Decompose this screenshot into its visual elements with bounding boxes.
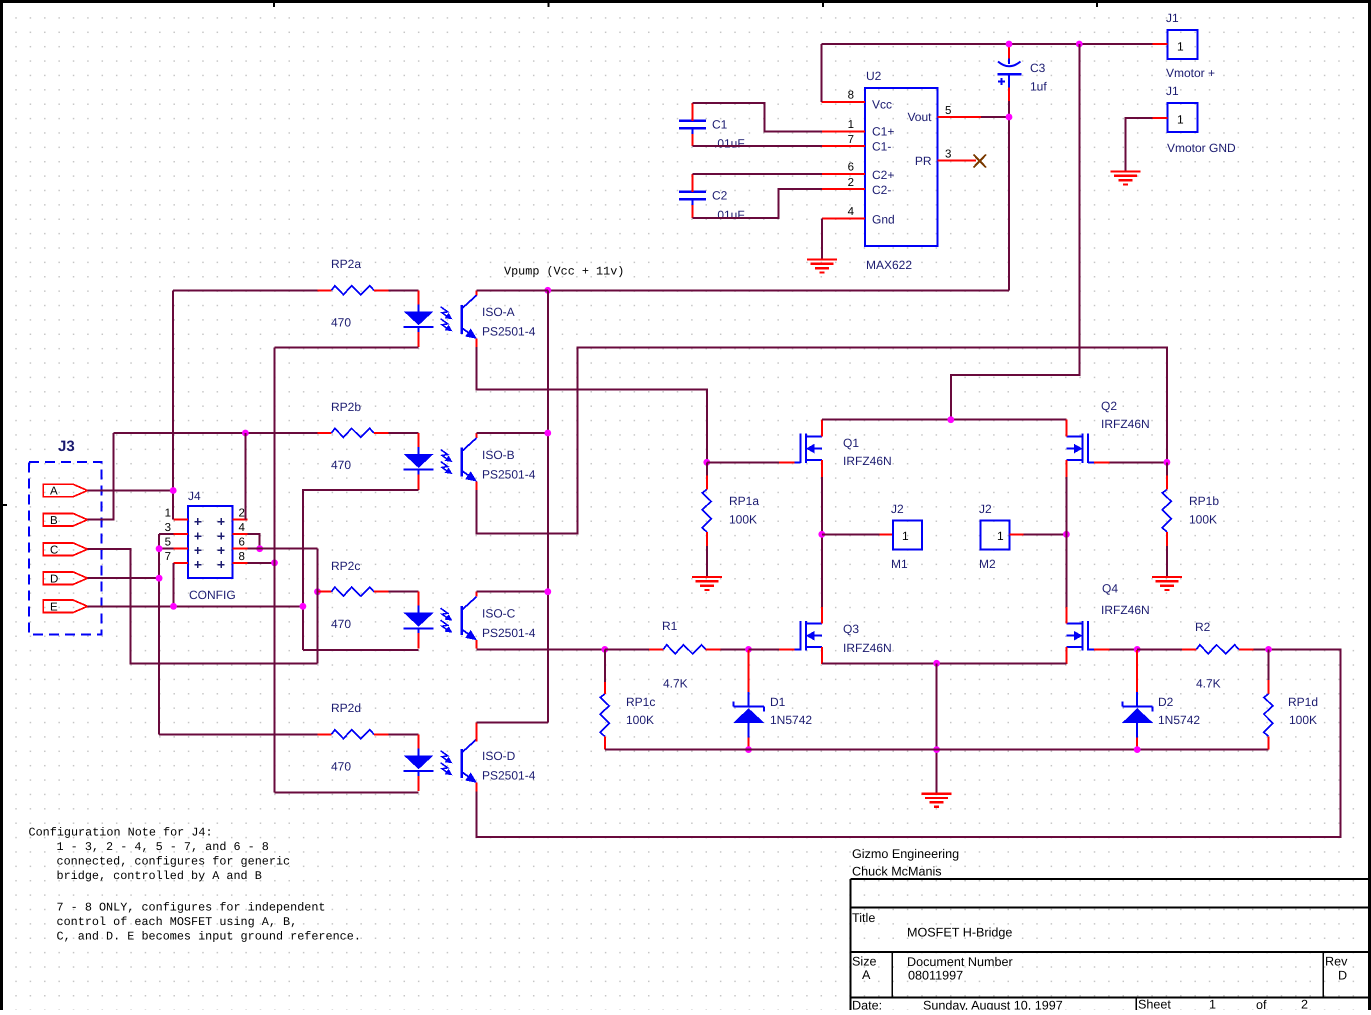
svg-text:connected, configures for gene: connected, configures for generic [57,855,291,869]
svg-text:ISO-C: ISO-C [482,607,516,621]
svg-text:Date:: Date: [852,999,882,1011]
svg-text:1N5742: 1N5742 [770,713,812,727]
RP1a top stub [706,476,708,490]
wire Vpump vertical feed [547,290,549,722]
svg-text:IRFZ46N: IRFZ46N [843,454,892,468]
J4 pin 3 stub [173,533,188,535]
R1 right stub [706,648,721,650]
svg-text:MOSFET H-Bridge: MOSFET H-Bridge [907,926,1012,940]
svg-text:C1-: C1- [872,140,891,154]
svg-text:Vmotor GND: Vmotor GND [1167,141,1236,155]
wire Q2 source to Q4 drain [1065,477,1067,607]
svg-text:100K: 100K [1189,513,1217,527]
wire RP2d row [159,733,317,735]
svg-text:3: 3 [165,522,171,534]
junction pin6 row [256,545,263,552]
zener diode D1 1N5742 [733,692,764,750]
capacitor C1 [679,103,706,146]
J4 pin 6 stub [232,548,247,550]
svg-text:control of each MOSFET using A: control of each MOSFET using A, B, [57,915,298,929]
wire C2+ to U2 pin6 [693,173,823,175]
J4 pin 2 stub [232,518,247,520]
RP2d right stub [374,733,389,735]
junction pin8 row [271,559,278,566]
border zone tick [1096,0,1098,7]
wire Q4 gate to D2 node [1110,648,1138,650]
wire V274 LED returns [274,348,276,793]
ground under RP1b [1152,577,1182,590]
svg-text:Rev: Rev [1325,955,1348,969]
RP1c bottom stub [604,736,606,749]
svg-text:Gnd: Gnd [872,213,895,227]
title block frame [851,879,1370,1010]
svg-text:Chuck McManis: Chuck McManis [852,865,942,879]
resistor RP1c upper wire [604,649,606,682]
transistor Q3 IRFZ46N [779,607,822,664]
wire A net vertical (RP2a feed) [172,290,174,519]
wire RP2d to LED [389,733,419,735]
svg-text:R2: R2 [1195,620,1211,634]
resistor RP1b [1162,490,1171,532]
U2 pin 2 stub [822,188,865,190]
junction R1 / D1 / Q3 gate [745,646,752,653]
capacitor C2 [679,174,706,218]
J1 pin stub [1153,43,1168,45]
transistor Q1 IRFZ46N [779,420,822,477]
wire RP1b to ground [1166,546,1168,577]
resistor RP1d upper wire [1268,649,1270,680]
wire V318 down to RP2c [317,549,319,664]
wire port E row [87,605,303,607]
wire RP2b to LED [389,432,419,434]
junction R2 / RP1d [1265,646,1272,653]
svg-text:1: 1 [1177,40,1184,54]
resistor RP1d [1264,694,1273,736]
J4 pin 8 stub [232,562,247,564]
svg-text:IRFZ46N: IRFZ46N [1101,603,1150,617]
connector J4 body [188,506,233,578]
RP1b bottom stub [1166,532,1168,546]
wire ISO-A LED return [275,347,419,349]
junction C3 top rail [1006,41,1013,48]
svg-text:Q1: Q1 [843,436,859,450]
junction ISO-C collector [544,588,551,595]
wire Vcc pin8 to top rail [821,44,823,102]
border zone tick left [0,504,7,506]
wire ISO-B emitter to Q2 gate node [477,347,1167,533]
wire C2- to U2 pin2 [693,189,823,218]
RP1d bottom stub [1268,736,1270,749]
svg-text:R1: R1 [662,619,678,633]
svg-text:IRFZ46N: IRFZ46N [843,641,892,655]
svg-text:Vout: Vout [907,110,932,124]
svg-text:6: 6 [239,537,245,549]
wire pin7 down to E [173,563,175,607]
wire M1 node to J2 [822,533,880,535]
svg-text:J2: J2 [891,502,904,516]
U2 pin 3 stub [938,160,976,162]
wire Q1 source to Q3 drain [821,477,823,607]
zener diode D2 1N5742 [1122,692,1153,750]
svg-text:Vpump (Vcc + 11v): Vpump (Vcc + 11v) [504,265,624,279]
svg-text:1: 1 [997,529,1004,543]
svg-text:RP2c: RP2c [331,559,360,573]
wire J1 GND to ground [1125,118,1152,172]
wire port D to vertical [87,577,159,579]
J2 M1 pin stub [880,533,894,535]
transistor Q2 IRFZ46N [1067,420,1110,477]
svg-text:ISO-B: ISO-B [482,448,515,462]
wire bridge bottom rail [822,662,1067,664]
junction A row [170,487,177,494]
wire pin6 row to V318 [248,548,318,550]
resistor RP1a [702,490,711,532]
svg-text:1 - 3, 2 - 4, 5 - 7, and 6 - 8: 1 - 3, 2 - 4, 5 - 7, and 6 - 8 [57,840,269,854]
wire RP2b row [114,432,318,434]
svg-text:C2+: C2+ [872,168,894,182]
U2 pin 8 stub [822,101,866,103]
RP2c right stub [374,591,389,593]
wire U2 Gnd down [821,218,823,259]
svg-text:Title: Title [852,911,875,925]
svg-text:470: 470 [331,760,351,774]
optocoupler ISO-B [404,433,477,490]
svg-text:PR: PR [915,154,932,168]
junction Vout node [1006,114,1013,121]
svg-text:1uf: 1uf [1030,80,1047,94]
wire center ground drop [936,663,938,793]
junction pin5 row [156,545,163,552]
svg-text:M1: M1 [891,557,908,571]
border zone tick [548,0,550,7]
connector J2 (M2) box [981,521,1010,550]
svg-text:Configuration Note for J4:: Configuration Note for J4: [29,826,213,840]
junction E row V303 [300,603,307,610]
svg-text:C2-: C2- [872,183,891,197]
wire gate row to R1 [605,648,649,650]
RP2c left stub [318,591,332,593]
svg-text:4.7K: 4.7K [663,677,688,691]
svg-text:RP2d: RP2d [331,701,361,715]
junction RP2c row [314,588,321,595]
junction bridge top rail [947,416,954,423]
R2 right stub [1239,648,1254,650]
U2 pin 1 stub [822,130,865,132]
junction Vpump at V548 [544,287,551,294]
U2 pin 5 stub [938,116,981,118]
ground under RP1a [692,577,722,590]
resistor RP1a upper wire [706,462,708,475]
svg-text:1: 1 [1209,998,1216,1011]
svg-text:2: 2 [1301,998,1308,1011]
port A [43,484,87,496]
U2 pin 7 stub [822,145,865,147]
svg-text:J1: J1 [1166,11,1179,25]
svg-text:4: 4 [239,522,246,534]
svg-text:PS2501-4: PS2501-4 [482,468,536,482]
svg-text:ISO-D: ISO-D [482,749,516,763]
J4 pin 1 stub [173,518,188,520]
wire Q1 gate row [707,461,779,463]
resistor RP2c [332,587,374,596]
RP1b top stub [1166,476,1168,490]
resistor RP2b [332,428,374,437]
svg-text:bridge, controlled by A and B: bridge, controlled by A and B [57,869,262,883]
wire ISO-C collector to Vpump [477,591,548,593]
junction Q4 gate / D2 / R2 [1134,646,1141,653]
svg-text:4.7K: 4.7K [1196,677,1221,691]
D1 top stub [748,650,750,692]
junction bottom rail center [933,660,940,667]
svg-text:1: 1 [848,119,854,131]
svg-text:A: A [50,486,58,498]
U2 pin 4 stub [822,217,865,219]
sheet border left [0,0,3,1010]
svg-text:B: B [50,515,58,527]
svg-text:A: A [862,968,871,982]
svg-text:Gizmo Engineering: Gizmo Engineering [852,847,959,861]
svg-text:Document Number: Document Number [907,955,1013,969]
wire RP2a row [173,289,317,291]
svg-text:Vmotor +: Vmotor + [1166,66,1215,80]
svg-text:D2: D2 [1158,695,1174,709]
svg-text:C3: C3 [1030,61,1046,75]
svg-text:Sunday, August 10, 1997: Sunday, August 10, 1997 [923,999,1063,1011]
transistor Q4 IRFZ46N [1067,607,1110,664]
RP2d left stub [318,733,332,735]
wire port A to J4 pin1 [87,490,173,492]
svg-text:Vcc: Vcc [872,98,892,112]
resistor RP2a [332,286,374,295]
wire top rail to J1 [822,43,1153,45]
RP2a left stub [318,289,332,291]
connector J1 (Vmotor +) box [1168,30,1198,59]
svg-text:4: 4 [848,206,855,218]
svg-text:Q3: Q3 [843,622,859,636]
wire R1 to D1 node [721,648,749,650]
wire pin3 corner [159,533,173,535]
junction D row [156,575,163,582]
RP1d top stub [1268,680,1270,694]
wire port C down and over [87,549,317,663]
J4 polarity marks [194,518,224,568]
svg-text:PS2501-4: PS2501-4 [482,769,536,783]
junction ISO-B collector [544,430,551,437]
wire R2 to RP1d node [1254,648,1269,650]
svg-text:8: 8 [848,90,854,102]
svg-text:Q2: Q2 [1101,399,1117,413]
optocoupler ISO-D [404,734,477,791]
junction top rail at 1079 [1076,41,1083,48]
wire ISO-A emitter to Q1 gate node [477,347,707,462]
svg-text:M2: M2 [979,557,996,571]
wire Q2 gate row [1110,461,1167,463]
wire ISO-C LED return [303,649,419,651]
svg-text:2: 2 [848,177,854,189]
junction D2 bottom [1134,746,1141,753]
resistor RP1c [600,694,609,736]
RP1c top stub [604,682,606,694]
wire RP2c to LED [389,591,419,593]
svg-text:IRFZ46N: IRFZ46N [1101,417,1150,431]
wire D1 node to Q3 gate [749,648,779,650]
ground under bridge [922,794,952,807]
svg-text:RP2a: RP2a [331,257,361,271]
resistor R2 [1196,645,1238,654]
svg-text:2: 2 [239,507,245,519]
svg-text:1: 1 [1177,113,1184,127]
junction Q2 gate / RP1b [1164,459,1171,466]
svg-text:C1: C1 [712,118,728,132]
svg-text:E: E [50,602,58,614]
svg-text:C, and D. E becomes input grou: C, and D. E becomes input ground referen… [57,930,361,944]
resistor RP2d [332,730,374,739]
R2 left stub [1182,648,1196,650]
J1 GND pin stub [1153,117,1168,119]
svg-text:Sheet: Sheet [1138,998,1171,1011]
junction lower rail center [933,746,940,753]
Vpump rail [476,289,1009,291]
svg-text:J2: J2 [979,502,992,516]
svg-text:C: C [50,544,58,556]
svg-text:1: 1 [165,507,171,519]
RP2a right stub [374,289,389,291]
capacitor C3 (polarized) [998,44,1022,101]
svg-text:RP1c: RP1c [626,695,655,709]
svg-text:100K: 100K [626,713,654,727]
ground under U2 [807,260,837,273]
ground under J1 [1110,172,1140,185]
wire C1+ to U2 pin1 [693,103,823,132]
port B [43,514,87,526]
wire ISO-D collector to Vpump [477,722,548,741]
svg-text:3: 3 [945,149,951,161]
no-connect X on pin 3 [974,155,987,168]
U2 pin 6 stub [822,173,865,175]
wire ISO-C emitter to gate row [477,648,605,650]
svg-text:7 - 8 ONLY, configures for ind: 7 - 8 ONLY, configures for independent [57,901,326,915]
wire J2 M2 to M2 node [1024,533,1067,535]
junction RP1c / gate row [601,646,608,653]
svg-text:100K: 100K [1289,713,1317,727]
connector J3 dashed outline [29,462,102,635]
svg-text:7: 7 [165,551,171,563]
configuration note text [29,826,361,944]
wire port B up to RP2b row [87,433,113,520]
svg-text:470: 470 [331,617,351,631]
svg-text:RP1b: RP1b [1189,494,1219,508]
wire ISO-B LED return [303,490,419,650]
sheet border top [0,0,1371,3]
connector J1 (Vmotor GND) box [1168,103,1198,132]
connector J2 (M1) box [893,521,922,550]
port D [43,572,87,584]
optocoupler ISO-C [404,592,477,649]
svg-text:of: of [1256,998,1267,1010]
junction M1 node [818,531,825,538]
wire ISO-B collector to Vpump [477,432,548,434]
wire C1- to U2 pin7 [693,145,823,147]
svg-text:5: 5 [945,105,951,117]
resistor R1 [663,645,705,654]
J4 pin 7 stub [173,562,188,564]
svg-text:U2: U2 [866,69,882,83]
svg-text:MAX622: MAX622 [866,258,912,272]
svg-text:7: 7 [848,134,854,146]
wire lower rail [605,749,1269,751]
svg-text:08011997: 08011997 [908,969,963,983]
svg-text:8: 8 [239,551,245,563]
border zone tick [822,0,824,7]
svg-text:470: 470 [331,458,351,472]
wire ISO-D emitter loop to R2 [477,649,1341,837]
svg-text:C2: C2 [712,189,728,203]
junction Q1 gate / RP1a [703,459,710,466]
sheet border right [1368,0,1371,1010]
wire D2 node to R2 [1137,648,1182,650]
port E [43,600,87,612]
J4 pin 4 stub [232,533,247,535]
svg-text:RP1d: RP1d [1288,695,1318,709]
wire RP2a to LED [389,289,419,291]
junction M2 node [1063,531,1070,538]
svg-text:470: 470 [331,316,351,330]
wire ISO-A collector to Vpump [477,289,548,291]
svg-text:1N5742: 1N5742 [1158,713,1200,727]
svg-text:100K: 100K [729,513,757,527]
junction D1 bottom [745,746,752,753]
wire Vout to C3 node [981,116,1009,118]
J4 pin 5 stub [173,548,188,550]
optocoupler ISO-A [404,290,477,347]
svg-text:5: 5 [165,537,171,549]
wire pin4 to pin6 jog [248,534,260,549]
svg-text:6: 6 [848,162,854,174]
svg-text:1: 1 [902,529,909,543]
svg-text:J3: J3 [58,438,75,455]
junction RP2b row to pins 2-4 [242,430,249,437]
svg-text:.01uF: .01uF [714,208,745,222]
RP2b left stub [318,432,332,434]
svg-text:J4: J4 [188,489,201,503]
svg-text:RP2b: RP2b [331,400,361,414]
RP2b right stub [374,432,389,434]
R1 left stub [649,648,663,650]
wire RP1a to ground [706,546,708,577]
D2 top stub [1136,650,1138,692]
junction E row pin7 [170,603,177,610]
svg-text:D: D [1338,969,1347,983]
wire D net vertical (RP2d feed) [158,534,160,734]
svg-text:D: D [50,573,58,585]
svg-text:Size: Size [852,955,877,969]
border zone tick [273,0,275,7]
J2 M2 pin stub [1010,533,1024,535]
wire Q1 drain to top rail [822,419,1067,421]
svg-text:Q4: Q4 [1102,582,1118,596]
svg-text:PS2501-4: PS2501-4 [482,325,536,339]
svg-text:C1+: C1+ [872,125,894,139]
svg-text:PS2501-4: PS2501-4 [482,626,536,640]
svg-text:ISO-A: ISO-A [482,305,515,319]
port C [43,543,87,555]
wire pin8 to V274 [248,562,275,564]
wire pin5 link [159,548,173,550]
svg-text:J1: J1 [1166,84,1179,98]
RP1a bottom stub [706,532,708,546]
svg-text:CONFIG: CONFIG [189,588,236,602]
wire ISO-D LED return [275,792,419,794]
